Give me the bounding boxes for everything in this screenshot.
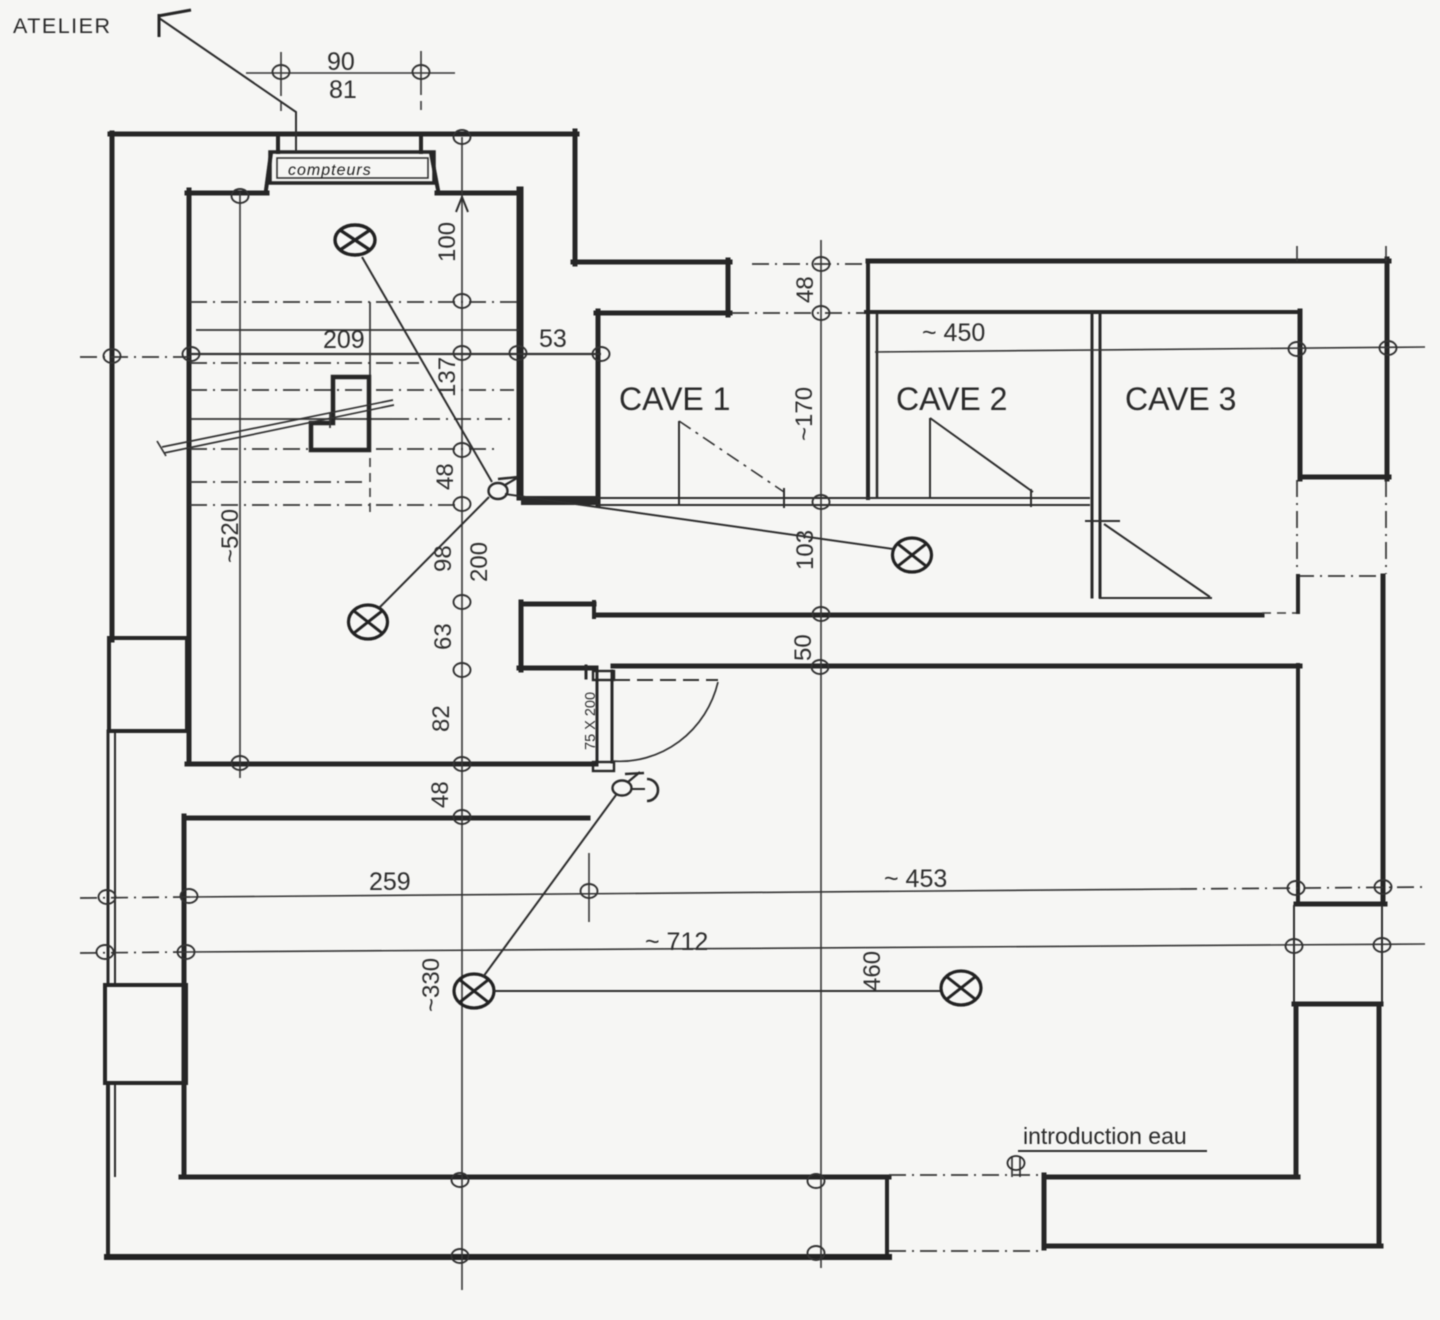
wire L4 to L5 (494, 990, 940, 992)
wall E vertical x598 (596, 311, 601, 505)
svg-text:CAVE 3: CAVE 3 (1125, 381, 1236, 417)
wire L4 to switch S2 (483, 795, 616, 977)
node circle 890 x107 (99, 890, 116, 904)
svg-text:100: 100 (434, 222, 461, 262)
wall shaft west top x1298 (1296, 576, 1300, 612)
door 75x200 cap top (593, 671, 614, 680)
stair tread dashdot y449 (190, 448, 500, 450)
door cave2 jamb tick (1030, 489, 1032, 507)
door 75x200 frame right (611, 671, 614, 762)
wall stair room west x189 (187, 190, 192, 764)
door cave3 swing diagonal (1104, 524, 1210, 597)
light fixture L5 (941, 971, 981, 1005)
wall cave block north inner y312 (866, 310, 1300, 314)
door 75x200 cap bottom (593, 762, 614, 771)
node circle 890 x1296 (1288, 881, 1305, 895)
node circle y354 x601 (593, 347, 610, 361)
node circle A y1180 (452, 1173, 469, 1187)
wall y668 west of door (519, 666, 596, 671)
light fixture L3 (893, 538, 932, 572)
node circle A y301 (454, 294, 471, 308)
dim 90/81 left vertical (280, 52, 282, 96)
svg-text:compteurs: compteurs (288, 162, 372, 179)
wall cave block north outer y261 (868, 259, 1389, 264)
wire L1 to switch node (362, 257, 492, 482)
wall shaft dashdot x1386 (1385, 480, 1387, 574)
wall bottom-right inner y1177 (1044, 1175, 1298, 1180)
dim line 90/81 horizontal y72 (246, 72, 455, 74)
wall cave block south outer y615 (596, 613, 1262, 618)
door cave1 swing diagonal dashed (679, 421, 784, 492)
door cave2 leaf (929, 418, 931, 498)
wall right thin x1382 (bump) (1381, 905, 1383, 1004)
wall step horizontal y262 (573, 260, 730, 265)
wall west outer upper (110, 133, 115, 640)
svg-text:~ 453: ~ 453 (884, 865, 947, 893)
wall cave block east outer x1387 (1385, 259, 1390, 479)
node circle A y817 (454, 810, 471, 824)
svg-text:~330: ~330 (418, 958, 445, 1012)
wire node to L2 (379, 497, 489, 608)
stair tread dashdot y482 (190, 481, 368, 483)
node circle 950 x1294 (1286, 939, 1303, 953)
meter niche left slant (266, 153, 271, 190)
svg-text:50: 50 (790, 634, 817, 661)
node circle A y602 (454, 595, 471, 609)
wall shaft west x1298 (1296, 665, 1300, 904)
svg-text:~ 712: ~ 712 (645, 928, 708, 956)
node circle B y614 (813, 607, 830, 621)
water inlet valve (1008, 1156, 1025, 1177)
node circle A y764 (454, 757, 471, 771)
meter niche right hanger (419, 136, 423, 152)
wall stair room top left segment (187, 191, 267, 196)
door cave3 jamb tick (1085, 520, 1120, 522)
leader arrow to atelier (159, 18, 296, 152)
stair ramp double diagonal (162, 400, 393, 447)
wall bottom opening dashed y1251 (889, 1250, 1044, 1252)
wall step east of stair room, vertical x575 (573, 131, 578, 264)
wall shaft dashed y576 (1297, 575, 1386, 577)
stair tread solid y330 (196, 329, 519, 331)
svg-text:introduction eau: introduction eau (1023, 1123, 1187, 1149)
switch S1 stroke (505, 478, 517, 485)
node circle y354 x191 (183, 347, 200, 361)
node circle 450-line x1388 (1380, 341, 1397, 355)
svg-text:53: 53 (539, 325, 567, 353)
grid line y354 dashdot west (80, 356, 190, 358)
svg-text:200: 200 (466, 542, 493, 582)
wall stair room south y764 (187, 762, 596, 767)
pilaster west lower (105, 985, 186, 1083)
wall step vertical x728 (726, 260, 731, 315)
node circle B y1181 (808, 1174, 825, 1188)
light fixture L1 (335, 225, 375, 255)
node circle A y450 (454, 443, 471, 457)
grid line ~712/460 y950 left dashdot (80, 952, 186, 953)
wall y313 left of cave block (596, 311, 730, 316)
wall tick above cave outer x1297 (1296, 246, 1298, 261)
svg-text:CAVE 1: CAVE 1 (619, 381, 730, 417)
wall stair room top right segment (437, 191, 521, 196)
door cave3 leaf (1099, 597, 1212, 599)
underline introduction eau (1018, 1150, 1207, 1152)
arrow head bar vertical (158, 14, 161, 37)
svg-text:48: 48 (792, 276, 819, 303)
grid dashdot y313 gap (732, 312, 864, 314)
wall cave3 east x1300 (1298, 311, 1303, 479)
light fixture L4 (454, 974, 494, 1008)
node circle B y313 (813, 306, 830, 320)
door 75x200 frame left (596, 671, 599, 762)
switch S2 bar (625, 773, 644, 774)
arrow head bar horizontal (158, 10, 191, 16)
node circle B y264 (813, 257, 830, 271)
door 75x200 swing arc (612, 682, 718, 761)
door cave2 swing diagonal (930, 418, 1033, 492)
svg-text:~170: ~170 (791, 387, 818, 441)
stair centre line x370 (369, 302, 371, 377)
wall bottom opening dashed y1175 (889, 1174, 1044, 1176)
wall right lower outer x1379 (1377, 1004, 1382, 1246)
stair tread dashdot y363 (190, 362, 419, 364)
grid line 259/~453 y890 left dashdot (80, 897, 190, 898)
svg-text:259: 259 (369, 868, 411, 896)
wall bottom outer y1256 (107, 1254, 889, 1260)
grid line A vertical x462 (461, 137, 463, 1290)
node circle C y196 (232, 189, 249, 203)
node circle A y136 (454, 130, 471, 144)
stair tread solid y419 (190, 418, 392, 420)
stair tread dashdot y419b (392, 418, 514, 420)
pilaster west upper (109, 638, 187, 731)
grid line y354 main (190, 353, 601, 355)
wall small step x594 (592, 602, 596, 617)
switch S1 circle (489, 483, 508, 499)
switch S2 stroke (628, 772, 640, 782)
svg-text:CAVE 2: CAVE 2 (896, 381, 1007, 417)
wire node to L3 (505, 494, 893, 549)
door cave1 leaf (678, 421, 680, 505)
wall corridor north upper line y498 (598, 497, 1090, 499)
svg-text:137: 137 (434, 357, 461, 397)
node circle dim90 left (273, 65, 290, 79)
meter box outer (270, 152, 434, 183)
wall y818 (south face of thick wall) (184, 816, 588, 821)
wall right thin x1294 (bump) (1293, 905, 1295, 1004)
dim 90/81 right vertical (420, 51, 422, 95)
node circle x589 (581, 884, 598, 898)
wall step y477 (1300, 475, 1389, 480)
wall partition cave2/cave3 double (1091, 313, 1094, 597)
node circle y354 x112 (104, 349, 121, 363)
grid line ~712/460 y950 (186, 944, 1425, 952)
grid line C vertical x240 (239, 192, 241, 778)
svg-text:81: 81 (329, 76, 357, 104)
wall shaft east x1383 (1381, 576, 1386, 904)
grid line B vertical x820 (820, 240, 822, 1268)
grid line A arrow head (456, 197, 468, 212)
svg-text:209: 209 (323, 326, 365, 354)
grid line 259/~453 y890 right dashdot (1180, 887, 1425, 889)
node circle A y353 (454, 346, 471, 360)
stair centre line x370 dashed lower (369, 458, 371, 512)
stair tread dashdot y390 (190, 389, 514, 391)
wall stair room east x519 (517, 190, 524, 497)
wall corridor north thick segment (521, 496, 598, 505)
stair ramp end tick (157, 441, 166, 456)
svg-text:75 X 200: 75 X 200 (583, 692, 599, 750)
wall partition cave1/cave2 west line (866, 261, 870, 498)
wall cave block south inner y666 (613, 664, 1300, 669)
node circle y354 x518 (510, 346, 527, 360)
wall right lower inner x1296 (1294, 1004, 1299, 1177)
wall west outer double between pilasters (107, 731, 110, 985)
svg-text:82: 82 (428, 705, 455, 732)
wall shaft dashdot x1297 (1296, 480, 1298, 573)
node circle C y763 (232, 756, 249, 770)
node circle 950 x105 (97, 945, 114, 959)
stair duct tick (329, 413, 331, 428)
switch S2 arc (632, 788, 645, 790)
svg-text:460: 460 (859, 951, 886, 991)
node circle 950 x186 (178, 945, 195, 959)
wall bottom-right outer y1246 (1044, 1244, 1381, 1249)
meter box inner (277, 158, 428, 178)
grid short vertical x589 (588, 853, 590, 922)
wall west outer lower (106, 1083, 110, 1258)
grid line 259/~453 y890 (190, 889, 1180, 897)
light fixture L2 (349, 605, 388, 639)
svg-text:90: 90 (327, 48, 355, 76)
node circle dim90 right (413, 65, 430, 79)
svg-text:63: 63 (430, 623, 457, 650)
node circle B y502 (813, 495, 830, 509)
svg-text:98: 98 (430, 545, 457, 572)
wall partition cave1/cave2 east line (876, 313, 879, 498)
node circle A y670 (454, 663, 471, 677)
node circle B y667 (812, 660, 829, 674)
wall tick above cave outer x1386 (1385, 246, 1387, 261)
wall top (110, 132, 577, 137)
node circle 890 x189 (181, 889, 198, 903)
wall bottom inner face y1177 (181, 1175, 889, 1180)
svg-text:~520: ~520 (217, 509, 244, 563)
node circle 950 x1382 (1374, 938, 1391, 952)
node circle B y1253 (808, 1246, 825, 1260)
wall vertical x887 closing bottom wall (885, 1177, 889, 1254)
switch S1 bar (498, 477, 518, 479)
wall chunk west of lower door: vertical x521 (519, 602, 524, 670)
stair tread dashdot y302 (190, 301, 519, 303)
wall y604 (521, 602, 594, 607)
svg-text:48: 48 (427, 781, 454, 808)
switch S2 circle (613, 781, 632, 796)
node circle A y504 (454, 497, 471, 511)
grid dashdot y264 (752, 263, 866, 265)
node circle 890 x1383 (1375, 880, 1392, 894)
door cave1 jamb tick (783, 488, 785, 508)
wall right bump bottom y1004 (1294, 1002, 1381, 1007)
door 75x200 leaf dashes (614, 679, 718, 681)
node circle A y1256 (452, 1249, 469, 1263)
meter niche left hanger (276, 136, 280, 152)
svg-text:48: 48 (432, 463, 459, 490)
meter niche right slant (431, 153, 438, 190)
door 75x200 jamb x586 (585, 666, 588, 678)
wall shaft bottom y904 (1296, 902, 1385, 907)
svg-text:ATELIER: ATELIER (13, 14, 112, 38)
node circle 450-line x1297 (1289, 342, 1306, 356)
stair tread dashdot y505 (190, 504, 460, 506)
wall cave block south outer y612 dashed end (1262, 612, 1297, 614)
wall bottom-right step x1044 (1042, 1175, 1047, 1248)
wall west inner lower x184 (182, 816, 187, 1177)
grid line ~450 y350 (875, 347, 1425, 352)
stair duct L-shape (311, 377, 369, 450)
wall corridor north lower line y505 (598, 504, 1090, 506)
svg-text:~ 450: ~ 450 (922, 319, 985, 347)
